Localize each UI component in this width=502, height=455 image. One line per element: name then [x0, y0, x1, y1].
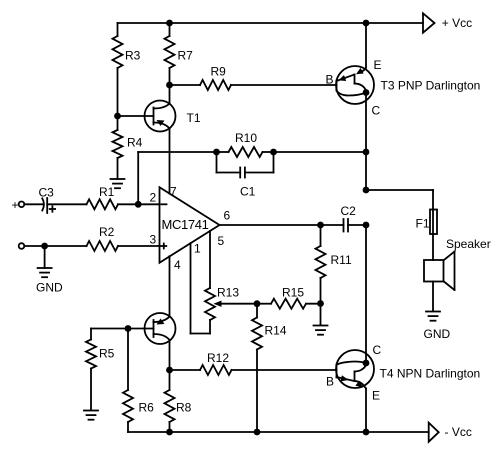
- svg-text:- Vcc: - Vcc: [445, 425, 472, 439]
- svg-text:R10: R10: [235, 131, 257, 145]
- svg-text:R12: R12: [207, 351, 229, 365]
- node T4 internal collector junction: [363, 360, 370, 367]
- +Vcc terminal arrow: [423, 13, 435, 32]
- resistor R1: [87, 199, 119, 209]
- resistor R5: [86, 340, 96, 369]
- ground below R11: [314, 326, 328, 335]
- wire R11 to R15 node: [320, 278, 322, 304]
- node R10-C1 right junction: [270, 149, 277, 156]
- wire R7 to R9 node: [169, 68, 171, 85]
- label R14: [265, 323, 287, 337]
- label R2: [99, 225, 115, 239]
- label C3 + polarity: [50, 206, 55, 211]
- op-amp U1 triangle body: [160, 187, 220, 262]
- svg-text:R1: R1: [99, 185, 115, 199]
- wire R11 node down to ground: [320, 304, 322, 326]
- svg-text:7: 7: [170, 184, 177, 198]
- label F1: [416, 216, 430, 230]
- label pin 2: [150, 191, 157, 205]
- svg-text:E: E: [374, 58, 382, 72]
- svg-text:Speaker: Speaker: [446, 237, 491, 251]
- label T3 collector C: [372, 104, 381, 118]
- wire R13 bottom to pin 1: [191, 320, 211, 334]
- label R3: [125, 49, 141, 63]
- wire pin2 node up to feedback row: [137, 152, 139, 204]
- label R4: [127, 136, 143, 150]
- wire R4 to ground: [117, 158, 119, 179]
- wire pin2 node to op-amp inverting input: [138, 203, 159, 205]
- svg-text:R9: R9: [211, 64, 227, 78]
- wire speaker to ground: [432, 282, 434, 312]
- wire pin 1 down: [190, 243, 192, 333]
- speaker: [424, 252, 455, 291]
- wire rail to speaker branch: [366, 152, 433, 210]
- wire R10 left lead: [217, 151, 229, 153]
- svg-text:R7: R7: [178, 49, 194, 63]
- wire R3 to T1 base node: [117, 68, 119, 116]
- label pin 3: [150, 232, 157, 246]
- label pin 7: [170, 184, 177, 198]
- ground below speaker: [426, 312, 440, 321]
- svg-text:B: B: [326, 72, 334, 86]
- junction top rail / T3 emitter column: [363, 20, 370, 27]
- resistor R12: [200, 365, 232, 375]
- wire T3 collector down to feedback junction: [365, 93, 367, 153]
- wire R14 to bottom rail: [256, 350, 258, 433]
- label R15: [282, 286, 304, 300]
- label pin 1: [194, 242, 201, 256]
- label T4 NPN Darlington: [380, 366, 481, 380]
- svg-text:C: C: [373, 343, 382, 357]
- junction top rail / R7 column: [166, 20, 173, 27]
- svg-text:R11: R11: [331, 253, 352, 267]
- label C3: [39, 185, 55, 199]
- wire R15 to R11 node: [306, 303, 321, 305]
- label R8: [176, 401, 192, 415]
- resistor R2: [87, 241, 119, 251]
- wire T4 emitter down to bottom rail: [365, 389, 367, 433]
- label T3 base B: [326, 72, 334, 86]
- input terminal top (open circle): [19, 202, 25, 208]
- label T4 base B: [326, 374, 334, 388]
- resistor R3: [113, 36, 123, 68]
- wire feedback row to output rail: [274, 151, 367, 153]
- node output / R11 junction: [317, 222, 324, 229]
- label R13: [217, 286, 239, 300]
- junction bottom rail / T4 emitter: [363, 429, 370, 436]
- junction output rail / feedback: [363, 149, 370, 156]
- wire T2 emitter node down to R8: [169, 370, 171, 390]
- capacitor C1 (parallel with R10): [217, 152, 274, 178]
- wire R1 to pin2 node: [118, 203, 138, 205]
- wire R12 to T4 base: [232, 369, 337, 371]
- junction output rail / C2: [363, 222, 370, 229]
- label + Vcc: [442, 16, 472, 30]
- svg-text:C1: C1: [240, 184, 256, 198]
- wire feedback row left segment: [138, 151, 216, 153]
- svg-text:GND: GND: [36, 281, 63, 295]
- junction bottom rail / R8: [166, 429, 173, 436]
- svg-text:C: C: [372, 104, 381, 118]
- wire R9 to T3 base: [231, 84, 337, 86]
- label Speaker: [446, 237, 491, 251]
- node T2 emitter / R8 / R12 junction: [166, 367, 173, 374]
- resistor R4: [113, 116, 123, 158]
- wire output node down to R11: [320, 225, 322, 246]
- label pin 6: [224, 209, 231, 223]
- wire input terminal to C3: [24, 203, 43, 205]
- node output rail / speaker branch: [363, 187, 370, 194]
- svg-text:R3: R3: [125, 49, 141, 63]
- R13 wiper arrow: [214, 301, 222, 307]
- fuse F1: [430, 210, 437, 235]
- resistor R8: [165, 390, 175, 422]
- wire R6 to bottom rail: [127, 422, 129, 432]
- resistor R11: [316, 246, 326, 278]
- svg-text:R13: R13: [217, 286, 239, 300]
- svg-text:R2: R2: [99, 225, 115, 239]
- wire R13 wiper to R14 node: [220, 303, 257, 305]
- wire R9 left lead: [170, 84, 201, 86]
- resistor R15: [271, 299, 306, 309]
- wire top rail to R3: [117, 23, 119, 36]
- transistor T4 body (NPN Darlington): [336, 350, 374, 389]
- node T1 base junction: [114, 113, 121, 120]
- wire R14 node to R15: [257, 303, 271, 305]
- label T3 emitter E: [374, 58, 382, 72]
- svg-text:C3: C3: [39, 185, 55, 199]
- label MC1741: [162, 217, 209, 232]
- label R9: [211, 64, 227, 78]
- input terminal bottom (open circle): [19, 243, 25, 249]
- wire R5 to ground: [90, 369, 92, 411]
- wire input ground row: [24, 245, 86, 247]
- wire C3 to R1: [47, 203, 86, 205]
- svg-text:R6: R6: [139, 401, 155, 415]
- node T3 internal collector junction: [363, 89, 370, 96]
- node R13 wiper / R14 / R15 junction: [254, 300, 261, 307]
- svg-text:6: 6: [224, 209, 231, 223]
- wire C2 to output rail: [348, 224, 366, 226]
- svg-text:+ Vcc: + Vcc: [442, 16, 472, 30]
- node R11 / R15 junction: [317, 300, 324, 307]
- wire T2 base node down to R6: [127, 329, 129, 391]
- node pin2 junction: [135, 201, 142, 208]
- svg-text:R4: R4: [127, 136, 143, 150]
- resistor R14: [252, 318, 262, 350]
- node T2 base / R6 junction: [125, 325, 132, 332]
- svg-text:R14: R14: [265, 323, 287, 337]
- svg-text:MC1741: MC1741: [162, 217, 209, 232]
- capacitor C2: [344, 219, 349, 232]
- label GND at input: [36, 281, 63, 295]
- node R7/R9/T1 collector junction: [166, 82, 173, 89]
- svg-text:1: 1: [194, 242, 201, 256]
- wire top +Vcc rail: [118, 22, 424, 24]
- capacitor C3 (input coupling, curved negative plate): [42, 198, 47, 213]
- wire R2 to op-amp non-inverting input: [118, 245, 160, 247]
- wire output node to C2: [321, 224, 344, 226]
- svg-text:R15: R15: [282, 286, 304, 300]
- wire T2 emitter node to R12: [170, 369, 201, 371]
- transistor T1 body (PNP, base left, collector up, emitter down to pin 7): [118, 85, 176, 194]
- svg-text:GND: GND: [424, 327, 451, 341]
- wire R8 to bottom rail: [169, 422, 171, 432]
- wire T2 base row to R5: [90, 329, 92, 340]
- wire R10 right lead: [263, 151, 274, 153]
- svg-text:2: 2: [150, 191, 157, 205]
- label T3 PNP Darlington: [381, 78, 481, 92]
- wire op-amp output (pin 6): [220, 224, 321, 226]
- label T4 collector C: [373, 343, 382, 357]
- svg-text:R5: R5: [99, 347, 115, 361]
- op-amp non-inverting input plus symbol: [161, 244, 166, 249]
- wire output rail down to T4 collector: [365, 225, 367, 354]
- svg-text:T3 PNP Darlington: T3 PNP Darlington: [381, 78, 481, 92]
- label R10: [235, 131, 257, 145]
- label T4 emitter E: [372, 388, 380, 402]
- svg-text:4: 4: [174, 258, 181, 272]
- label C2: [341, 204, 357, 218]
- junction bottom rail / R14: [254, 429, 261, 436]
- ground below R5: [84, 411, 98, 420]
- resistor R6: [123, 390, 133, 422]
- wire junction down to R14: [256, 304, 258, 318]
- svg-text:E: E: [372, 388, 380, 402]
- op-amp inverting input minus symbol: [162, 203, 167, 205]
- label R7: [178, 49, 194, 63]
- label R11: [331, 253, 352, 267]
- node input ground junction: [41, 243, 48, 250]
- label T1: [187, 111, 201, 125]
- -Vcc terminal arrow: [429, 423, 439, 442]
- svg-text:R8: R8: [176, 401, 192, 415]
- potentiometer R13: [205, 288, 215, 320]
- resistor R10: [229, 147, 263, 157]
- ground at input: [38, 268, 52, 277]
- label C1: [240, 184, 256, 198]
- ground below R4: [111, 179, 125, 188]
- svg-text:F1: F1: [416, 216, 430, 230]
- label R6: [139, 401, 155, 415]
- svg-text:B: B: [326, 374, 334, 388]
- wire top rail to R7: [169, 23, 171, 36]
- label R5: [99, 347, 115, 361]
- label - Vcc: [445, 425, 472, 439]
- node feedback / R10-C1 left junction: [213, 149, 220, 156]
- svg-text:+: +: [12, 198, 19, 212]
- label pin 5: [218, 234, 225, 248]
- label + input polarity: [12, 198, 19, 212]
- svg-text:5: 5: [218, 234, 225, 248]
- svg-text:T1: T1: [187, 111, 201, 125]
- wire F1 to speaker: [432, 234, 434, 260]
- resistor R9: [200, 80, 231, 90]
- wire pin 5 down to R13: [209, 231, 211, 288]
- transistor T3 body (PNP Darlington): [336, 66, 374, 104]
- resistor R7: [165, 36, 175, 68]
- label pin 4: [174, 258, 181, 272]
- label GND below speaker: [424, 327, 451, 341]
- wire bottom -Vcc rail: [128, 431, 429, 433]
- transistor T2 body (PNP, base left, collector up to pin 4, emitter down): [91, 256, 176, 370]
- svg-text:3: 3: [150, 232, 157, 246]
- wire top rail down to T3 emitter: [365, 23, 367, 68]
- wire junction down to input ground: [44, 246, 46, 268]
- label R1: [99, 185, 115, 199]
- label R12: [207, 351, 229, 365]
- svg-text:T4 NPN Darlington: T4 NPN Darlington: [380, 366, 481, 380]
- svg-text:C2: C2: [341, 204, 357, 218]
